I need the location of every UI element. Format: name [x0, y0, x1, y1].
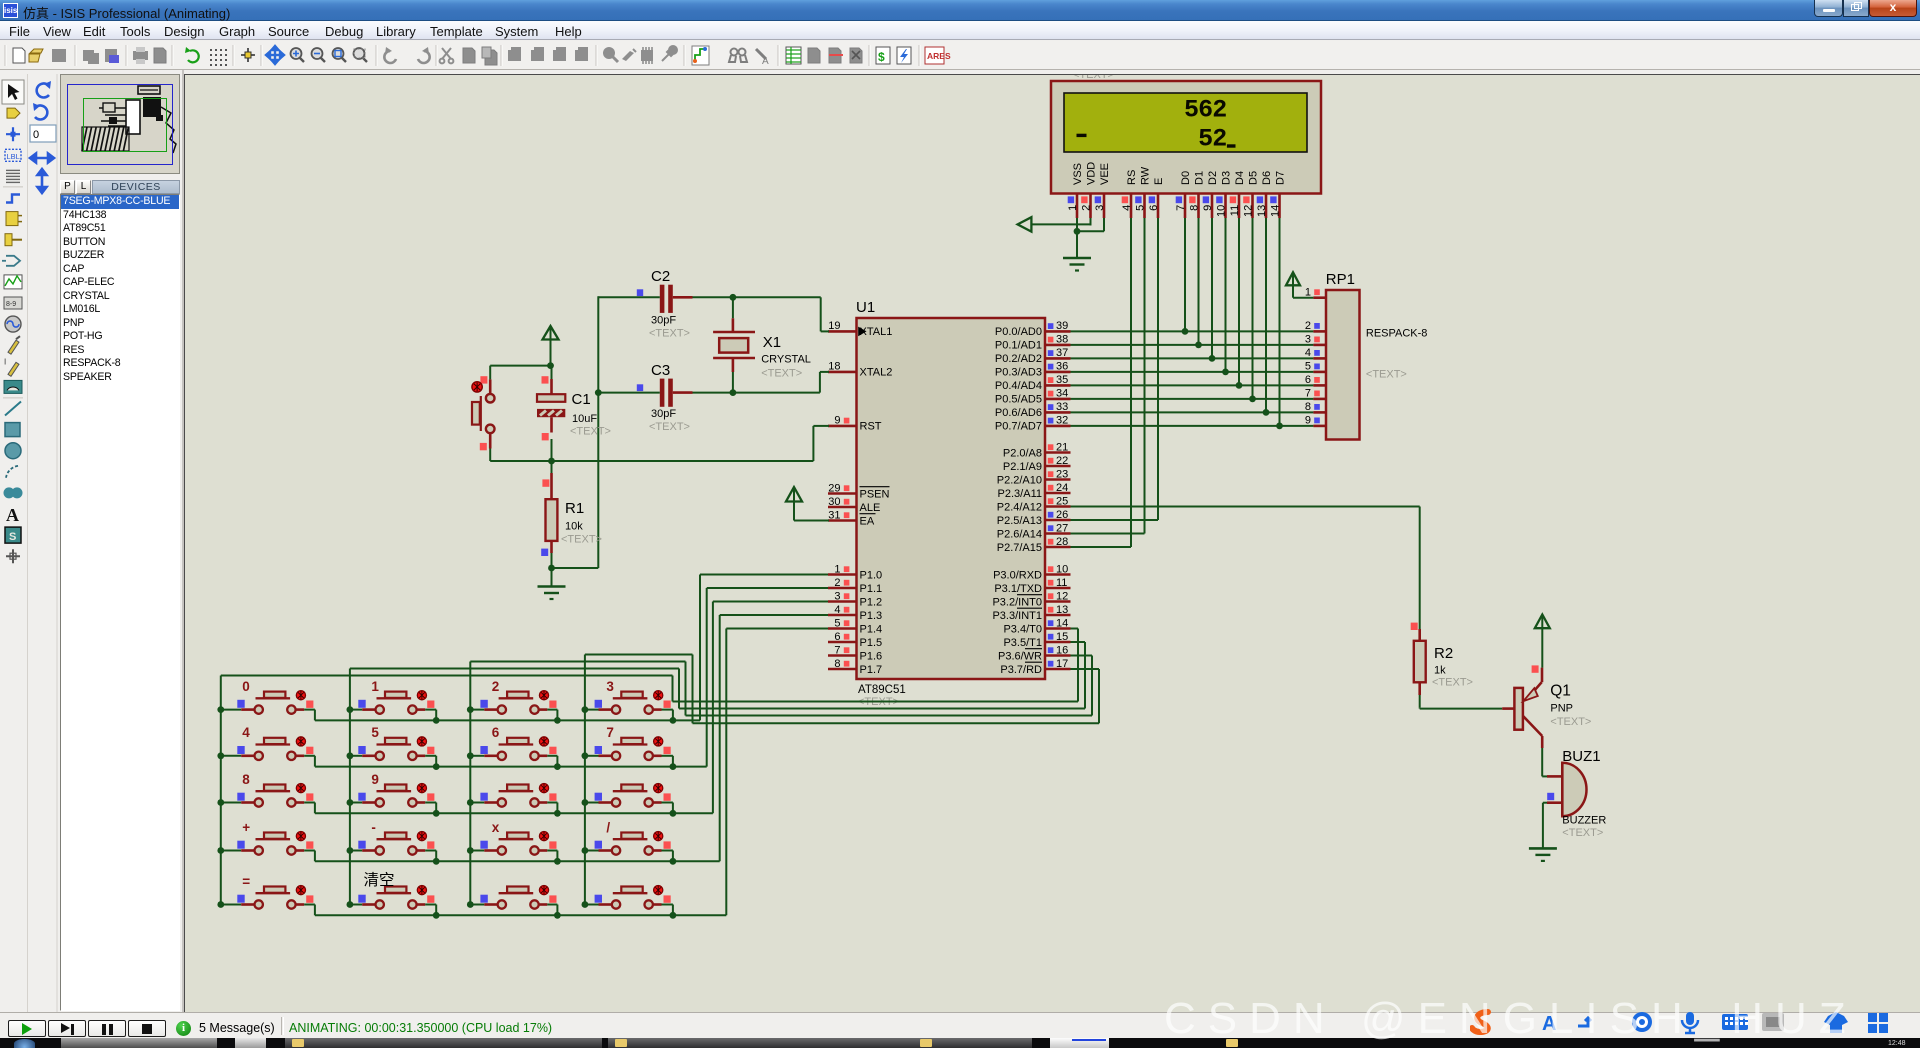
junction keypad row 1 / drop 4	[670, 717, 677, 724]
junction keypad row 2 / drop 2	[433, 763, 440, 770]
svg-text:ARES: ARES	[927, 51, 951, 61]
svg-text:P1.5: P1.5	[860, 637, 883, 649]
svg-text:P0.5/AD5: P0.5/AD5	[995, 394, 1042, 406]
svg-text:<TEXT>: <TEXT>	[649, 328, 690, 340]
junction column 3 row 5	[467, 901, 474, 908]
svg-text:I: I	[4, 357, 6, 366]
wire C2 to XTAL1	[693, 297, 830, 331]
transistor Q1 PNP	[1514, 668, 1591, 748]
wire VSS pin1 down	[1076, 218, 1078, 231]
ground (buzzer)	[1529, 848, 1557, 861]
svg-text:E: E	[1153, 178, 1165, 185]
svg-text:XTAL2: XTAL2	[860, 367, 893, 379]
svg-text:P3.2/INT0: P3.2/INT0	[992, 596, 1042, 608]
svg-text:27: 27	[1056, 522, 1068, 534]
svg-text:Q1: Q1	[1550, 683, 1571, 700]
svg-text:10: 10	[1216, 205, 1228, 217]
svg-text:23: 23	[1056, 468, 1068, 480]
svg-text:30: 30	[828, 496, 840, 508]
push button (reset)	[472, 366, 495, 461]
wire P0.2 to RP1 pin 4	[1071, 357, 1314, 359]
svg-text:1k: 1k	[1434, 665, 1446, 677]
svg-text:A: A	[762, 56, 769, 67]
junction column 4 row 2	[582, 752, 589, 759]
svg-text:2: 2	[1081, 205, 1093, 211]
C3 right stub	[673, 391, 693, 394]
wire P0.7 to RP1 pin 9	[1071, 425, 1314, 427]
wire keypad column 3 to P3.6	[470, 656, 1092, 716]
svg-text:/: /	[606, 820, 610, 835]
svg-text:D6: D6	[1261, 171, 1273, 185]
svg-text:XTAL1: XTAL1	[860, 326, 893, 338]
svg-text:14: 14	[1056, 617, 1068, 629]
svg-text:VSS: VSS	[1072, 163, 1084, 185]
button keypad r1c2	[350, 691, 436, 721]
junction column 4 row 5	[582, 901, 589, 908]
wire RST net horizontal	[490, 460, 813, 462]
svg-text:CRYSTAL: CRYSTAL	[761, 354, 811, 366]
svg-text:12: 12	[1243, 205, 1255, 217]
wire LCD D0 vertical to P0.0 bus	[1184, 218, 1186, 331]
junction X1 bottom / C3	[730, 389, 737, 396]
wire to LCD ground	[1076, 231, 1078, 258]
junction keypad row 3 / drop 4	[670, 810, 677, 817]
capacitor C2 30pF	[637, 268, 690, 340]
resistor R1 10k	[541, 461, 602, 568]
svg-text:P1.4: P1.4	[860, 623, 883, 635]
device list	[60, 194, 180, 1011]
svg-text:25: 25	[1056, 495, 1068, 507]
junction keypad row 5 / drop 3	[554, 912, 561, 919]
window buttons	[1814, 0, 1843, 17]
svg-text:=: =	[242, 874, 250, 889]
svg-text:34: 34	[1056, 388, 1068, 400]
wire R1 to ground	[551, 568, 553, 586]
svg-text:<TEXT>: <TEXT>	[649, 421, 690, 433]
status bar	[0, 1012, 1920, 1038]
P L buttons + DEVICES header	[60, 180, 75, 194]
wire P0.5 to RP1 pin 7	[1071, 398, 1314, 400]
svg-text:3: 3	[834, 590, 840, 602]
svg-text:18: 18	[828, 361, 840, 373]
svg-text:3: 3	[1094, 205, 1106, 211]
power terminal (RP1 pin 1)	[1286, 272, 1313, 297]
wire Q1 collector to buzzer	[1542, 748, 1547, 776]
taskbar sliver	[0, 1038, 1920, 1048]
svg-text:22: 22	[1056, 455, 1068, 467]
button keypad r4c3	[470, 832, 557, 862]
svg-text:5: 5	[1184, 96, 1199, 125]
button keypad r4c1	[221, 832, 315, 862]
svg-text:8-9: 8-9	[6, 301, 16, 308]
junction keypad row 4 / drop 4	[670, 858, 677, 865]
svg-text:4: 4	[242, 725, 250, 740]
RP1 pins 1-9	[1305, 287, 1326, 427]
microcontroller U1 AT89C51 body	[856, 299, 1045, 708]
junction column 2 row 2	[347, 752, 354, 759]
wire P2.4/A12 to R2	[1071, 507, 1420, 630]
svg-text:P1.7: P1.7	[860, 664, 883, 676]
capacitor C1 10uF (electrolytic)	[537, 366, 611, 461]
svg-text:P2.3/A11: P2.3/A11	[998, 488, 1042, 500]
svg-text:30pF: 30pF	[651, 315, 676, 327]
svg-text:11: 11	[1056, 577, 1067, 589]
svg-text:7: 7	[606, 725, 614, 740]
junction column 3 row 3	[467, 799, 474, 806]
wire keypad column 2 vertical	[349, 669, 351, 905]
wire P0.3 to RP1 pin 5	[1071, 371, 1314, 373]
svg-text:D3: D3	[1220, 171, 1232, 185]
junction D6/P0.6	[1263, 409, 1270, 416]
junction D4/P0.4	[1236, 382, 1243, 389]
buzzer BUZ1	[1547, 748, 1606, 839]
junction column 1 row 4	[217, 847, 224, 854]
svg-text:RS: RS	[1126, 170, 1138, 185]
svg-text:31: 31	[828, 509, 840, 521]
svg-text:D7: D7	[1274, 171, 1286, 185]
svg-text:P3.3/INT1: P3.3/INT1	[992, 610, 1042, 622]
svg-text:8: 8	[834, 658, 840, 670]
junction left rail / C3	[595, 389, 602, 396]
svg-text:P2.0/A8: P2.0/A8	[1003, 447, 1042, 459]
wire LCD D4 vertical to P0.4 bus	[1238, 218, 1240, 385]
wire left vertical to C2	[597, 296, 599, 568]
button keypad r1c3	[470, 691, 557, 721]
junction keypad row 1 / drop 3	[554, 717, 561, 724]
svg-text:0: 0	[33, 129, 39, 141]
svg-text:<TEXT>: <TEXT>	[1562, 827, 1603, 839]
svg-text:P3.7/RD: P3.7/RD	[1000, 664, 1042, 676]
svg-text:2: 2	[492, 679, 500, 694]
svg-text:<TEXT>: <TEXT>	[1432, 677, 1473, 689]
junction D3/P0.3	[1222, 369, 1229, 376]
svg-text:29: 29	[828, 482, 840, 494]
svg-text:5: 5	[1198, 125, 1213, 154]
svg-text:PNP: PNP	[1550, 703, 1573, 715]
svg-text:6: 6	[492, 725, 500, 740]
button keypad r5c3	[470, 886, 557, 916]
wire LCD D5 vertical to P0.5 bus	[1252, 218, 1254, 399]
junction column 1 row 1	[217, 706, 224, 713]
wire keypad column 1 to P3.4	[221, 629, 1078, 702]
svg-text:6: 6	[1198, 96, 1213, 125]
power terminal (VDD arrow, points left)	[1018, 217, 1091, 231]
svg-text:P2.4/A12: P2.4/A12	[997, 501, 1042, 513]
svg-text:6: 6	[1305, 374, 1311, 386]
svg-text:BUZ1: BUZ1	[1562, 748, 1600, 765]
svg-text:P2.6/A14: P2.6/A14	[997, 528, 1042, 540]
svg-text:P2.1/A9: P2.1/A9	[1003, 461, 1042, 473]
junction column 2 row 5	[347, 901, 354, 908]
ground (reset network)	[538, 587, 566, 600]
svg-text:35: 35	[1056, 374, 1068, 386]
wire keypad row 1 to P1.0	[315, 575, 828, 721]
svg-text:6: 6	[1148, 205, 1160, 211]
svg-text:D4: D4	[1234, 171, 1246, 185]
wire keypad column 3 vertical	[469, 662, 471, 905]
svg-text:7: 7	[1305, 388, 1311, 400]
svg-text:P2.2/A10: P2.2/A10	[997, 474, 1042, 486]
button keypad r3c1	[221, 784, 315, 814]
svg-text:10k: 10k	[565, 521, 583, 533]
svg-text:RST: RST	[860, 421, 882, 433]
svg-text:U1: U1	[856, 299, 875, 316]
svg-text:32: 32	[1056, 415, 1068, 427]
svg-text:7: 7	[834, 644, 840, 656]
junction column 3 row 1	[467, 706, 474, 713]
svg-text:D2: D2	[1207, 171, 1219, 185]
junction D0/P0.0	[1182, 328, 1189, 335]
svg-text:P2.7/A15: P2.7/A15	[997, 542, 1042, 554]
svg-text:LBL: LBL	[7, 152, 20, 161]
junction column 4 row 1	[582, 706, 589, 713]
wire LCD D6 vertical to P0.6 bus	[1265, 218, 1267, 412]
svg-text:清空: 清空	[364, 871, 395, 889]
wire VDD pin2 down to power rail	[1090, 218, 1092, 226]
svg-text:<TEXT>: <TEXT>	[570, 426, 611, 438]
svg-text:10: 10	[1056, 563, 1068, 575]
svg-text:R1: R1	[565, 500, 584, 517]
svg-text:X1: X1	[763, 334, 781, 351]
button keypad r2c1	[221, 737, 315, 767]
wire keypad row 5 to P1.4	[315, 629, 828, 916]
toolbar	[0, 41, 1920, 70]
button keypad r3c4	[585, 784, 673, 814]
junction keypad row 3 / drop 3	[554, 810, 561, 817]
svg-text:38: 38	[1056, 334, 1068, 346]
junction R1 bottom node	[548, 565, 555, 572]
svg-text:4: 4	[1121, 205, 1133, 211]
wire VCC rail to button top	[490, 365, 550, 367]
wire keypad column 2 to P3.5	[350, 642, 1085, 709]
junction keypad row 5 / drop 4	[670, 912, 677, 919]
svg-text:17: 17	[1056, 658, 1068, 670]
button keypad r2c2	[350, 737, 436, 767]
junction column 1 row 5	[217, 901, 224, 908]
svg-text:2: 2	[1305, 320, 1311, 332]
svg-text:6: 6	[834, 631, 840, 643]
svg-text:37: 37	[1056, 347, 1068, 359]
svg-text:P1.6: P1.6	[860, 650, 883, 662]
button keypad r5c2	[350, 886, 436, 916]
svg-text:D0: D0	[1180, 171, 1192, 185]
wire LCD RS vertical to P2.7	[1071, 218, 1132, 547]
power terminal (Q1 emitter)	[1532, 615, 1550, 673]
svg-text:10uF: 10uF	[572, 413, 597, 425]
svg-text:P3.1/TXD: P3.1/TXD	[994, 583, 1042, 595]
wire C3 to XTAL2	[693, 372, 830, 393]
button keypad r1c4	[585, 691, 673, 721]
svg-text:EA: EA	[860, 515, 875, 527]
svg-text:VEE: VEE	[1099, 163, 1111, 185]
svg-text:<TEXT>: <TEXT>	[1366, 369, 1407, 381]
svg-text:P0.7/AD7: P0.7/AD7	[995, 421, 1042, 433]
LCD screen text "- 52_" line 2	[1077, 125, 1236, 154]
resistor R2 1k	[1411, 623, 1473, 708]
svg-text:<TEXT>: <TEXT>	[761, 368, 802, 380]
svg-text:2: 2	[834, 577, 840, 589]
svg-text:A: A	[6, 505, 19, 525]
svg-text:5: 5	[1135, 205, 1147, 211]
junction column 2 row 4	[347, 847, 354, 854]
svg-text:7: 7	[1175, 205, 1187, 211]
svg-text:8: 8	[1305, 401, 1311, 413]
svg-text:5: 5	[1305, 361, 1311, 373]
junction keypad row 5 / drop 2	[433, 912, 440, 919]
svg-text:24: 24	[1056, 482, 1068, 494]
junction column 4 row 4	[582, 847, 589, 854]
svg-text:9: 9	[1305, 415, 1311, 427]
svg-text:8: 8	[242, 772, 250, 787]
junction column 4 row 3	[582, 799, 589, 806]
wire C3 left	[598, 392, 660, 394]
junction column 3 row 2	[467, 752, 474, 759]
menu bar	[0, 21, 1920, 40]
svg-text:P1.1: P1.1	[860, 583, 883, 595]
svg-text:C1: C1	[572, 391, 591, 408]
svg-text:5: 5	[371, 725, 379, 740]
svg-text:9: 9	[1202, 205, 1214, 211]
button keypad r5c1	[221, 886, 315, 916]
svg-text:RP1: RP1	[1326, 271, 1355, 288]
junction keypad row 2 / drop 4	[670, 763, 677, 770]
svg-text:P3.6/WR: P3.6/WR	[998, 650, 1042, 662]
svg-text:13: 13	[1056, 604, 1068, 616]
svg-text:9: 9	[371, 772, 379, 787]
object selector: preview	[60, 74, 180, 174]
junction keypad row 2 / drop 3	[554, 763, 561, 770]
svg-text:-: -	[371, 820, 376, 835]
svg-text:39: 39	[1056, 320, 1068, 332]
svg-text:$: $	[878, 50, 885, 64]
wire R2 to Q1 base	[1419, 707, 1421, 708]
junction D5/P0.5	[1249, 396, 1256, 403]
svg-text:<TEXT>: <TEXT>	[1073, 75, 1114, 81]
junction keypad row 1 / drop 2	[433, 717, 440, 724]
wire keypad row 3 to P1.2	[315, 602, 828, 814]
wire LCD D3 vertical to P0.3 bus	[1225, 218, 1227, 372]
svg-text:R2: R2	[1434, 645, 1453, 662]
button keypad r4c4	[585, 832, 673, 862]
svg-text:PSEN: PSEN	[860, 488, 890, 500]
junction column 2 row 1	[347, 706, 354, 713]
button keypad r3c2	[350, 784, 436, 814]
wire P0.0 to RP1 pin 2	[1071, 330, 1314, 332]
svg-text:1: 1	[1067, 205, 1079, 211]
svg-text:P0.4/AD4: P0.4/AD4	[995, 380, 1042, 392]
button keypad r3c3	[470, 784, 557, 814]
svg-text:VDD: VDD	[1085, 162, 1097, 185]
power terminal (VCC above C1/button)	[543, 326, 559, 366]
svg-text:12: 12	[1056, 590, 1068, 602]
wire P0.1 to RP1 pin 3	[1071, 344, 1314, 346]
junction column 1 row 3	[217, 799, 224, 806]
svg-text:<TEXT>: <TEXT>	[1550, 716, 1591, 728]
svg-text:RESPACK-8: RESPACK-8	[1366, 328, 1428, 340]
svg-text:P0.0/AD0: P0.0/AD0	[995, 326, 1042, 338]
svg-text:P1.0: P1.0	[860, 569, 883, 581]
svg-text:28: 28	[1056, 536, 1068, 548]
wire keypad row 2 to P1.1	[315, 588, 828, 767]
button keypad r2c3	[470, 737, 557, 767]
C2 right stub	[673, 296, 693, 299]
wire LCD D1 vertical to P0.1 bus	[1198, 218, 1200, 345]
svg-text:5: 5	[834, 617, 840, 629]
junction RST / C1 bottom	[548, 458, 555, 465]
svg-text:P3.5/T1: P3.5/T1	[1003, 637, 1042, 649]
svg-text:1: 1	[371, 679, 379, 694]
svg-text:P0.6/AD6: P0.6/AD6	[995, 407, 1042, 419]
junction D7/P0.7	[1276, 423, 1283, 430]
button keypad r2c4	[585, 737, 673, 767]
svg-text:RW: RW	[1139, 166, 1151, 185]
LCD LCD1 LM016L display body	[1051, 81, 1321, 194]
junction VCC / C1 top	[547, 362, 554, 369]
svg-text:BUZZER: BUZZER	[1562, 815, 1606, 827]
svg-text:14: 14	[1270, 205, 1282, 217]
Q1 base stub	[1502, 707, 1514, 710]
ground (LCD)	[1063, 258, 1091, 271]
LCD screen text "562" line 1	[1184, 96, 1227, 125]
svg-text:15: 15	[1056, 631, 1068, 643]
wire keypad column 4 vertical	[584, 655, 586, 905]
wire LCD D2 vertical to P0.2 bus	[1211, 218, 1213, 358]
svg-text:D5: D5	[1247, 171, 1259, 185]
junction keypad row 4 / drop 2	[433, 858, 440, 865]
resistor pack RP1 RESPACK-8	[1326, 271, 1428, 440]
svg-text:3: 3	[606, 679, 614, 694]
svg-text:2: 2	[1212, 125, 1227, 154]
wire keypad row 4 to P1.3	[315, 615, 828, 861]
tray icons	[1470, 1008, 1920, 1038]
svg-text:16: 16	[1056, 644, 1068, 656]
junction column 3 row 4	[467, 847, 474, 854]
svg-text:11: 11	[1229, 205, 1241, 216]
left mode toolbar	[0, 70, 184, 1012]
svg-text:P0.1/AD1: P0.1/AD1	[995, 340, 1042, 352]
svg-text:2: 2	[1212, 96, 1227, 125]
svg-text:ALE: ALE	[860, 502, 881, 514]
junction keypad row 4 / drop 3	[554, 858, 561, 865]
svg-text:P0.2/AD2: P0.2/AD2	[995, 353, 1042, 365]
button keypad r5c4	[585, 886, 673, 916]
svg-text:P3.4/T0: P3.4/T0	[1003, 623, 1042, 635]
watermark	[1164, 994, 1920, 1044]
U1 left-side pins (stubs, numbers, state squares, names)	[828, 320, 892, 676]
svg-text:D1: D1	[1193, 171, 1205, 185]
svg-text:26: 26	[1056, 509, 1068, 521]
svg-text:13: 13	[1256, 205, 1268, 217]
U1 right-side pins (stubs, numbers, state squares, names)	[992, 320, 1070, 676]
svg-text:x: x	[492, 820, 500, 835]
junction VSS node	[1074, 228, 1081, 235]
junction D2/P0.2	[1209, 355, 1216, 362]
svg-text:P0.3/AD3: P0.3/AD3	[995, 367, 1042, 379]
wire RST up to pin 9	[813, 426, 829, 461]
svg-text:1: 1	[834, 563, 840, 575]
svg-text:21: 21	[1056, 441, 1068, 453]
svg-text:33: 33	[1056, 401, 1068, 413]
svg-text:P1.3: P1.3	[860, 610, 883, 622]
svg-text:S: S	[9, 531, 16, 543]
svg-text:4: 4	[1305, 347, 1311, 359]
LCD pin stubs, squares, numbers and pin-name labels	[1067, 162, 1286, 218]
wire left rail to R1 bottom	[552, 567, 599, 569]
junction column 2 row 3	[347, 799, 354, 806]
svg-text:3: 3	[1305, 334, 1311, 346]
wire P0.4 to RP1 pin 6	[1071, 384, 1314, 386]
junction column 1 row 2	[217, 752, 224, 759]
